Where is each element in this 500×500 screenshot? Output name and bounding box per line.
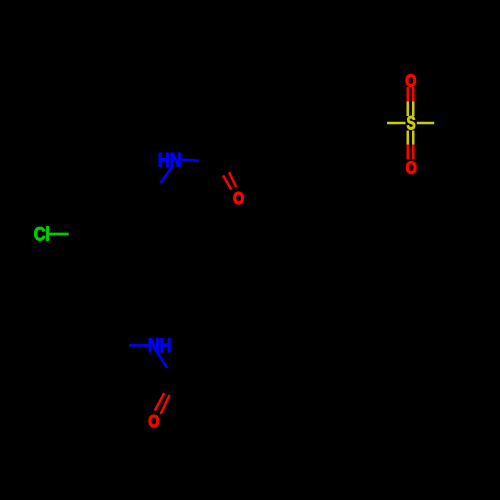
wire: C=O red half, right line (bottom amide) — [161, 395, 170, 414]
svg-text:N: N — [148, 335, 160, 357]
wire: bond N-ring blue half (bottom amide, horizontal) — [129, 344, 149, 347]
svg-text:N: N — [170, 149, 182, 171]
svg-text:S: S — [407, 112, 416, 134]
wire: C=O red half, left line (top amide) — [223, 175, 231, 189]
wire: bond N-ring blue half (top amide diagonal) — [160, 167, 172, 183]
svg-text:H: H — [160, 335, 172, 357]
wire: S=O top double bond, left line (red upper / yellow lower) — [407, 87, 410, 102]
wire: bond S-CH3 (right yellow half) — [417, 122, 434, 125]
svg-text:O: O — [148, 412, 159, 432]
svg-text:O: O — [406, 158, 417, 178]
wire: bond S-CH2 (left yellow half) — [387, 122, 406, 125]
wire: C=O red half, right line (top amide) — [229, 172, 236, 187]
svg-text:Cl: Cl — [34, 223, 50, 245]
wire: bond N-C(=O) blue half (top amide) — [181, 160, 199, 161]
svg-text:O: O — [233, 188, 244, 208]
wire: S=O bottom double bond, right line — [412, 131, 415, 145]
wire: S=O top double bond, right line — [412, 87, 415, 102]
wire: bond Cl-ring green half — [48, 233, 69, 236]
svg-text:O: O — [405, 71, 416, 91]
wire: bond N-C(=O) blue half (bottom amide diagonal) — [157, 352, 167, 368]
wire: S=O bottom double bond, left line (yellow upper / red lower) — [407, 131, 410, 145]
wire: C=O red half, left line (bottom amide) — [155, 393, 164, 410]
svg-text:H: H — [158, 149, 170, 171]
